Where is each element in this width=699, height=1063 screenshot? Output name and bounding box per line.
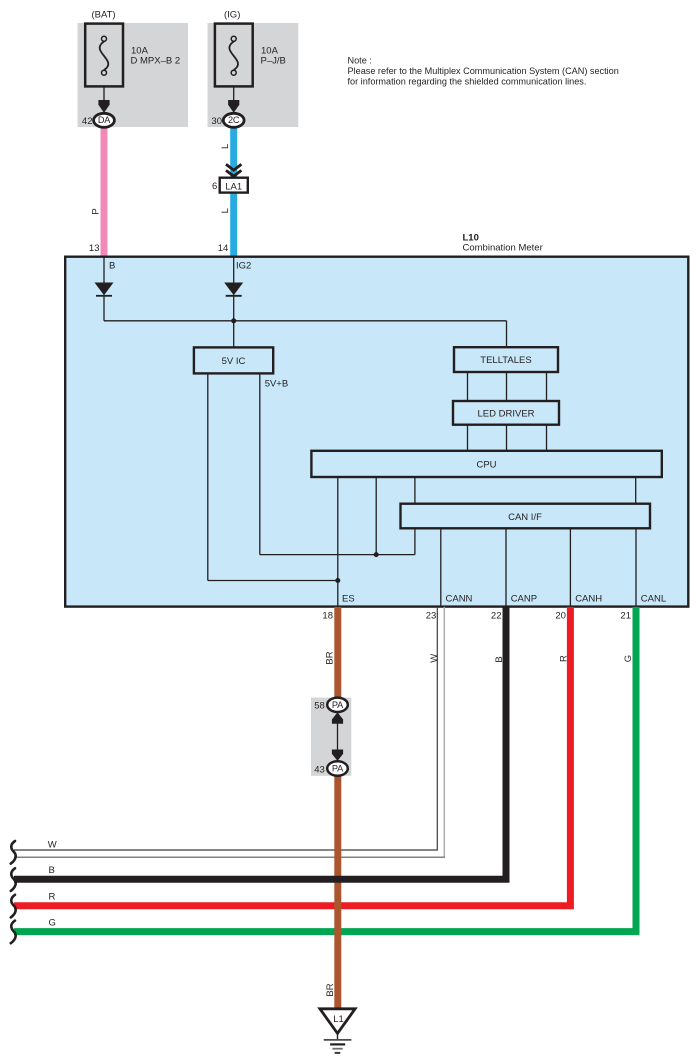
wires TELLTALES to LED DRIVER xyxy=(467,372,469,401)
svg-text:6: 6 xyxy=(212,181,217,192)
wire CPU down to junction xyxy=(375,477,377,555)
continuation squiggle G bus xyxy=(11,921,16,944)
wire CAN I/F to CANN pin xyxy=(440,528,442,606)
svg-text:B: B xyxy=(49,865,55,876)
block CPU xyxy=(311,451,661,477)
svg-text:TELLTALES: TELLTALES xyxy=(480,355,531,366)
continuation squiggle R bus xyxy=(11,895,16,918)
ground L1 triangle xyxy=(320,1009,355,1034)
wire BR (brown) ES to connector PA xyxy=(334,607,341,699)
svg-text:B: B xyxy=(109,261,115,272)
junction dot CPU/CAN return xyxy=(374,552,379,557)
svg-text:R: R xyxy=(49,892,56,903)
fuse F2 element xyxy=(229,42,238,71)
block LED DRIVER xyxy=(453,401,559,425)
arrow into connector 2C xyxy=(228,100,239,113)
connector PA (lower half) xyxy=(327,761,348,775)
svg-text:W: W xyxy=(429,654,440,663)
svg-text:PA: PA xyxy=(332,764,344,774)
svg-text:LA1: LA1 xyxy=(225,181,242,192)
diode D1 xyxy=(95,283,114,296)
svg-text:CPU: CPU xyxy=(476,459,496,470)
svg-text:13: 13 xyxy=(89,243,100,254)
block CAN I/F xyxy=(401,504,651,529)
wire horizontal 5V IC to ES xyxy=(208,580,338,582)
svg-text:(IG): (IG) xyxy=(224,10,240,21)
svg-text:BR: BR xyxy=(324,651,335,664)
wire pin13 to diode D1 xyxy=(103,257,105,283)
svg-text:DA: DA xyxy=(98,115,111,125)
svg-text:23: 23 xyxy=(426,611,437,622)
wire W inner edge horizontal xyxy=(14,856,445,858)
block 5V IC xyxy=(194,347,273,373)
svg-text:14: 14 xyxy=(218,243,229,254)
wire BR (brown) connector PA to ground xyxy=(334,774,341,1010)
svg-text:D MPX–B 2: D MPX–B 2 xyxy=(131,56,181,67)
wire 5V IC left pin down xyxy=(207,373,209,580)
wire fuse F1 to connector DA xyxy=(103,87,105,105)
wire fuse F2 to connector 2C xyxy=(233,87,235,105)
wire L (blue) 2C to pin 14 xyxy=(230,124,237,257)
svg-text:PA: PA xyxy=(332,700,344,710)
svg-text:IG2: IG2 xyxy=(236,261,251,272)
junction-block shading (IG fuse area) xyxy=(208,23,299,127)
svg-text:42: 42 xyxy=(82,116,93,127)
wire W (white, outlined) CANN to bus: outer edge xyxy=(14,607,437,850)
wire pin14 to diode D2 xyxy=(233,257,235,283)
wire CAN I/F to CANH pin xyxy=(569,528,571,606)
connector LA1 xyxy=(220,178,248,193)
arrow up to PA upper xyxy=(332,712,343,723)
component L10 Combination Meter box xyxy=(65,257,688,607)
svg-text:W: W xyxy=(48,839,57,850)
svg-text:R: R xyxy=(559,655,570,662)
svg-text:ES: ES xyxy=(342,594,355,605)
svg-text:58: 58 xyxy=(314,701,325,712)
wire P (pink) DA to pin 13 xyxy=(101,124,108,257)
ground stem xyxy=(337,1033,339,1040)
arrow down to PA lower xyxy=(332,750,343,761)
connector DA xyxy=(94,113,115,127)
connector PA shading xyxy=(311,698,351,776)
svg-text:5V IC: 5V IC xyxy=(222,356,246,367)
connector 2C xyxy=(223,113,244,127)
fuse F1 10A D MPX-B 2 box xyxy=(85,24,123,87)
wire CAN I/F to CANL pin xyxy=(635,528,637,606)
svg-text:L: L xyxy=(220,208,231,213)
svg-text:for information regarding the: for information regarding the shielded c… xyxy=(348,76,587,86)
svg-text:LED DRIVER: LED DRIVER xyxy=(477,409,534,420)
diode D2 xyxy=(224,283,243,296)
svg-text:CANP: CANP xyxy=(511,594,537,605)
wire W inner edge vertical (gray) xyxy=(443,607,445,857)
fuse F2 10A P-J/B box xyxy=(215,24,253,87)
svg-text:Note :: Note : xyxy=(348,56,372,66)
junction-block shading (BAT fuse area) xyxy=(78,23,189,127)
svg-text:G: G xyxy=(623,655,634,662)
svg-text:CANH: CANH xyxy=(575,594,602,605)
fuse F1 element xyxy=(100,42,109,71)
wire horizontal diodes bus xyxy=(104,320,507,322)
svg-text:L1: L1 xyxy=(333,1014,344,1025)
wire CAN I/F bottom return xyxy=(414,528,416,554)
svg-text:P–J/B: P–J/B xyxy=(261,56,286,67)
continuation squiggle W bus xyxy=(11,841,16,864)
svg-text:BR: BR xyxy=(325,983,336,996)
svg-text:20: 20 xyxy=(555,611,566,622)
wire R (red) CANH to bus xyxy=(14,607,570,906)
wire 5V IC right pin down (5V+B) xyxy=(259,373,261,554)
svg-text:CANN: CANN xyxy=(446,594,473,605)
wire CPU to CAN I/F (left) xyxy=(414,477,416,504)
wire horizontal 5V+B to CAN I/F return xyxy=(260,554,415,556)
svg-text:5V+B: 5V+B xyxy=(265,379,289,390)
ground bar 3 xyxy=(332,1048,342,1050)
junction dot ES xyxy=(335,578,340,583)
shield chevron symbol xyxy=(226,164,241,170)
block TELLTALES xyxy=(454,347,558,372)
wire diode D1 down xyxy=(103,296,105,321)
svg-text:2C: 2C xyxy=(228,115,240,125)
svg-text:G: G xyxy=(49,918,56,929)
svg-text:Combination Meter: Combination Meter xyxy=(463,243,543,254)
svg-text:CANL: CANL xyxy=(641,594,666,605)
junction dot diodes xyxy=(231,318,236,323)
svg-text:P: P xyxy=(90,208,101,214)
wire CPU to CAN I/F (right) xyxy=(635,477,637,504)
wire down to TELLTALES xyxy=(506,321,508,347)
svg-text:Please refer to the Multiplex: Please refer to the Multiplex Communicat… xyxy=(348,66,619,76)
svg-text:30: 30 xyxy=(211,116,222,127)
svg-text:L: L xyxy=(220,144,231,149)
wire diode D2 to 5V IC xyxy=(233,296,235,348)
wire G (green) CANL to bus xyxy=(14,607,636,932)
wire between PA halves xyxy=(337,721,339,752)
connector PA (upper half) xyxy=(327,698,348,712)
svg-text:CAN I/F: CAN I/F xyxy=(508,512,542,523)
svg-text:18: 18 xyxy=(322,611,333,622)
svg-text:43: 43 xyxy=(314,764,325,775)
wire B (black) CANP to bus xyxy=(14,607,506,879)
svg-text:B: B xyxy=(494,656,505,662)
arrow into connector DA xyxy=(98,100,109,113)
svg-text:22: 22 xyxy=(491,611,502,622)
continuation squiggle B bus xyxy=(11,868,16,891)
wires LED DRIVER to CPU xyxy=(467,425,469,451)
wire CPU to ES pin xyxy=(337,477,339,606)
ground bar 2 xyxy=(330,1043,345,1045)
svg-text:21: 21 xyxy=(620,611,631,622)
ground bar 4 xyxy=(335,1052,341,1054)
wire CAN I/F to CANP pin xyxy=(505,528,507,606)
ground bar 1 xyxy=(324,1039,352,1041)
svg-text:(BAT): (BAT) xyxy=(92,10,116,21)
